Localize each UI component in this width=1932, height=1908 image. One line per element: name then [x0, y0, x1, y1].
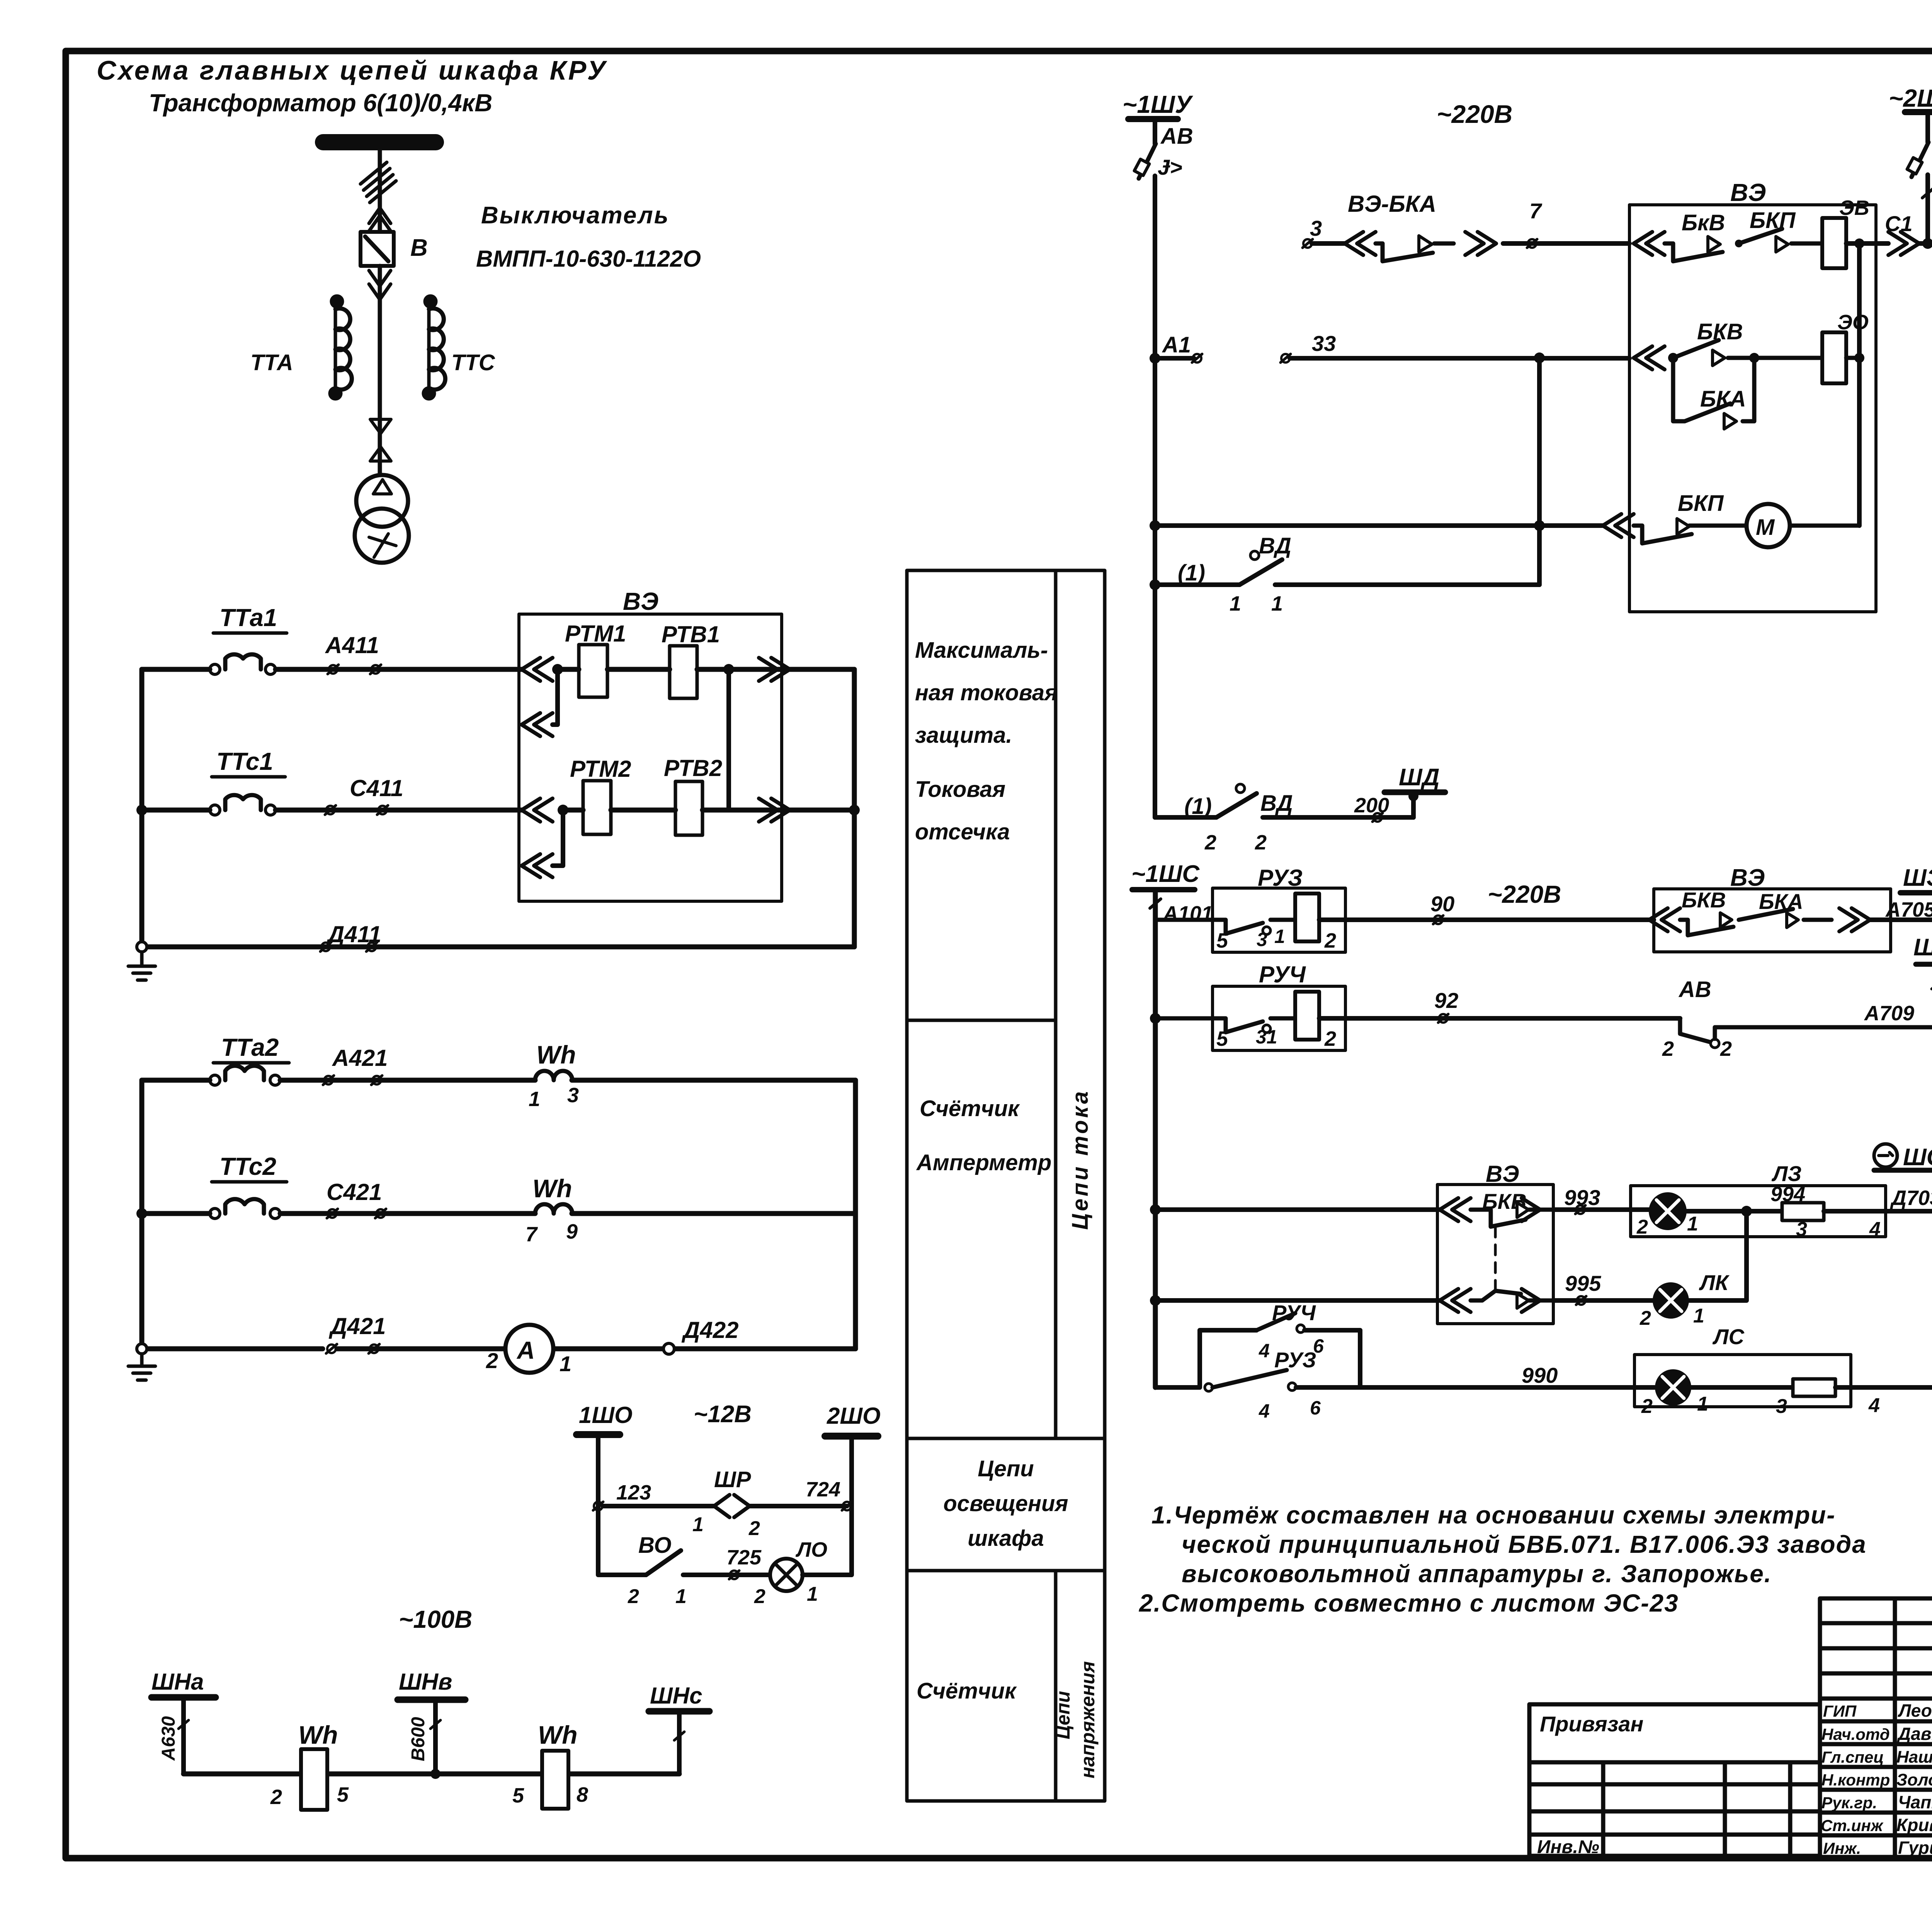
motor M: [1747, 504, 1790, 547]
svg-text:РУЗ: РУЗ: [1274, 1348, 1316, 1372]
phase mark A421 a: [323, 1076, 334, 1085]
title: Схема главных цепей шкафа КРУ: [97, 55, 607, 117]
chevron up marks: [369, 208, 391, 231]
svg-text:ШС: ШС: [1903, 1144, 1932, 1171]
svg-text:Чапны: Чапны: [1898, 1792, 1932, 1812]
busbar 2ShO: [825, 1433, 878, 1440]
svg-text:4: 4: [1259, 1400, 1270, 1422]
contact arrows EV row in: [1634, 232, 1665, 255]
wire row1 inside box: [558, 667, 854, 672]
node BKV row2: [1668, 353, 1678, 363]
svg-text:отсечка: отсечка: [915, 819, 1010, 844]
svg-text:2: 2: [1720, 1037, 1732, 1060]
svg-text:Д421: Д421: [328, 1313, 386, 1339]
right return vertical metering: [853, 1080, 858, 1349]
svg-text:А1: А1: [1162, 332, 1191, 357]
lamp LZ: [1651, 1194, 1685, 1228]
busbar ShNa: [151, 1694, 216, 1701]
title block: privyazan table: [1529, 1704, 1820, 1856]
svg-text:123: 123: [616, 1481, 651, 1504]
relay box VE (current): [519, 614, 782, 901]
svg-text:~220В: ~220В: [1437, 100, 1512, 128]
svg-text:М: М: [1756, 515, 1775, 540]
phase mark D421 b: [369, 1344, 379, 1353]
CT TTA coil: [330, 296, 352, 398]
node A1: [1150, 353, 1160, 364]
svg-text:ВЭ: ВЭ: [1730, 865, 1765, 891]
wire A421: [142, 1078, 855, 1083]
aux switch box VE/BKV (transfer): [1437, 1185, 1553, 1324]
relay box VE (signal): [1654, 889, 1891, 952]
svg-text:защита.: защита.: [915, 723, 1012, 748]
wire from busbar to breaker: [378, 150, 382, 232]
bus 2ShU drop: [1925, 112, 1930, 243]
contact arrows row1: [522, 658, 553, 681]
svg-text:ТТА: ТТА: [250, 350, 293, 375]
svg-text:Привязан: Привязан: [1540, 1712, 1643, 1736]
svg-text:Ст.инж: Ст.инж: [1821, 1816, 1884, 1835]
switch VD row1: [1155, 582, 1240, 587]
svg-text:6: 6: [1310, 1397, 1321, 1419]
transformer T windings: [356, 475, 408, 527]
svg-text:3: 3: [1776, 1395, 1787, 1418]
svg-text:2: 2: [1204, 831, 1216, 854]
phase mark C411 a: [325, 805, 336, 815]
svg-text:Кривцова: Кривцова: [1896, 1815, 1932, 1835]
node ground D421: [137, 1344, 147, 1354]
svg-text:33: 33: [1312, 331, 1336, 356]
svg-text:ГИП: ГИП: [1823, 1702, 1857, 1720]
left bus vertical (CT group 1): [139, 669, 145, 947]
phase mark 724: [842, 1502, 852, 1510]
svg-text:2: 2: [1324, 1027, 1336, 1050]
svg-text:~220В: ~220В: [1488, 880, 1561, 908]
svg-text:Счётчик: Счётчик: [920, 1096, 1020, 1121]
wire D411: [142, 945, 854, 950]
svg-text:1ШО: 1ШО: [579, 1402, 633, 1428]
svg-text:АВ: АВ: [1678, 977, 1711, 1002]
svg-text:РТВ1: РТВ1: [662, 621, 720, 647]
svg-text:Золотарева: Золотарева: [1896, 1770, 1932, 1789]
busbar 6-10kV: [323, 134, 436, 150]
CT TTa1 symbol: [210, 654, 276, 674]
chevron down marks: [369, 271, 391, 300]
svg-text:2: 2: [628, 1585, 639, 1608]
svg-text:Схема главных цепей шкафа: Схема главных цепей шкафа КРУ: [97, 55, 607, 85]
svg-text:~100В: ~100В: [399, 1605, 472, 1633]
svg-text:1: 1: [807, 1583, 818, 1605]
contact arrows EO row in: [1634, 346, 1665, 369]
svg-text:Цепи: Цепи: [978, 1456, 1034, 1481]
svg-text:ческой принципиальной БВБ.07: ческой принципиальной БВБ.071. В17.006.Э…: [1182, 1530, 1867, 1558]
svg-text:5: 5: [512, 1784, 524, 1807]
busbar ShNs: [649, 1708, 709, 1715]
svg-text:1: 1: [692, 1513, 704, 1536]
svg-text:1: 1: [560, 1351, 571, 1376]
wire row EV left: [1312, 241, 1629, 246]
svg-text:В600: В600: [408, 1717, 429, 1761]
wire 123: [603, 1504, 714, 1508]
phase mark C411 b: [377, 805, 388, 815]
svg-text:Инв.№: Инв.№: [1537, 1837, 1599, 1857]
node 994: [1741, 1206, 1752, 1217]
node ShNv: [430, 1769, 440, 1779]
svg-text:Давыдов: Давыдов: [1896, 1724, 1932, 1744]
phase mark 725: [729, 1571, 739, 1579]
svg-text:освещения: освещения: [943, 1491, 1068, 1516]
svg-text:С421: С421: [327, 1179, 382, 1205]
wire D421: [142, 1346, 855, 1351]
contact arrows row2: [522, 798, 553, 822]
wire LZ row left: [1155, 1207, 1440, 1212]
svg-text:А411: А411: [325, 632, 379, 658]
svg-text:ВМПП-10-630-1122О: ВМПП-10-630-1122О: [476, 246, 701, 272]
middle legend table: [907, 570, 1105, 1801]
minus lamp bus ShS: [1874, 1144, 1897, 1167]
svg-text:Wh: Wh: [298, 1721, 338, 1749]
svg-text:Д422: Д422: [681, 1317, 738, 1343]
svg-text:А705: А705: [1885, 898, 1932, 921]
phase mark 1ShS: [1150, 899, 1161, 908]
phase mark ShNa: [179, 1720, 189, 1729]
svg-text:2: 2: [1641, 1395, 1653, 1418]
svg-text:РТМ1: РТМ1: [565, 621, 626, 647]
svg-text:Леонов: Леонов: [1898, 1700, 1932, 1721]
relay box VE (control): [1629, 205, 1876, 612]
lamp LS assembly box: [1634, 1355, 1851, 1407]
svg-text:ЛО: ЛО: [795, 1538, 827, 1561]
svg-text:С411: С411: [350, 775, 403, 801]
svg-text:БКП: БКП: [1750, 208, 1796, 233]
svg-text:4: 4: [1868, 1394, 1880, 1417]
phase mark C421 b: [375, 1209, 386, 1218]
svg-text:А630: А630: [158, 1716, 179, 1761]
svg-text:Гурина: Гурина: [1898, 1838, 1932, 1858]
BKV transfer upper: [1471, 1210, 1526, 1227]
notes text: [1139, 1501, 1867, 1617]
node EO out: [1854, 353, 1864, 363]
arrows EV out / C1 wire: [1888, 232, 1919, 255]
wire row2 inside box: [563, 808, 854, 813]
svg-text:А421: А421: [332, 1045, 388, 1071]
wire C421: [142, 1211, 855, 1216]
CT TTa2 symbol: [210, 1066, 280, 1085]
svg-text:ШР: ШР: [714, 1467, 751, 1492]
wire BKP/M row: [1155, 523, 1604, 528]
node VD row1 at bus: [1150, 579, 1160, 590]
svg-text:724: 724: [806, 1478, 840, 1501]
right drop 2ShO: [803, 1506, 852, 1575]
svg-text:ВЭ: ВЭ: [1730, 179, 1766, 206]
shunt loop row2: [553, 810, 563, 866]
phase mark D411 b: [366, 942, 377, 951]
svg-text:1: 1: [1697, 1393, 1708, 1415]
contact arrows LZ in: [1440, 1198, 1471, 1221]
svg-text:1: 1: [529, 1088, 540, 1111]
bus 1ShS vertical: [1153, 890, 1158, 1387]
disconnect triangles: [370, 419, 391, 461]
svg-text:ШНс: ШНс: [650, 1683, 702, 1709]
lamp LS: [1657, 1371, 1689, 1404]
svg-text:3: 3: [567, 1084, 579, 1107]
svg-text:2: 2: [748, 1517, 760, 1540]
phase mark ShD: [1372, 813, 1383, 822]
svg-text:Нашельский: Нашельский: [1896, 1748, 1932, 1767]
svg-text:Цепи: Цепи: [1052, 1691, 1074, 1739]
svg-text:ТТс1: ТТс1: [216, 747, 273, 775]
svg-text:Цепи тока: Цепи тока: [1068, 1089, 1093, 1230]
node C411 loop: [558, 805, 568, 815]
phase mark ShNv: [430, 1720, 440, 1729]
svg-text:2.Смотреть совместно с лист: 2.Смотреть совместно с листом ЭС-23: [1139, 1589, 1679, 1617]
wire 724: [750, 1504, 847, 1508]
svg-text:1.Чертёж составлен на основ: 1.Чертёж составлен на основании схемы эл…: [1151, 1501, 1836, 1529]
svg-text:Токовая: Токовая: [915, 777, 1005, 802]
phase mark 2ShU: [1922, 189, 1932, 198]
svg-text:Д703: Д703: [1890, 1186, 1932, 1210]
svg-text:2: 2: [1639, 1307, 1651, 1329]
node D422: [663, 1343, 674, 1354]
wire A1 stub: [1155, 356, 1194, 361]
link vertical 33/VD: [1537, 358, 1542, 585]
svg-text:ЛС: ЛС: [1712, 1324, 1745, 1349]
svg-text:ШЗА: ШЗА: [1903, 865, 1932, 891]
svg-text:ТТС: ТТС: [451, 350, 495, 375]
svg-text:995: 995: [1565, 1271, 1601, 1295]
svg-text:БКВ: БКВ: [1682, 888, 1726, 912]
breaker B box: [361, 232, 394, 266]
svg-text:ШЗП: ШЗП: [1913, 934, 1932, 961]
svg-text:8: 8: [577, 1783, 588, 1806]
svg-text:~1ШУ: ~1ШУ: [1122, 90, 1194, 118]
busbar 1ShO: [577, 1431, 620, 1438]
svg-text:ВЭ: ВЭ: [1486, 1161, 1519, 1187]
ground symbol metering: [128, 1354, 155, 1380]
contact arrows M row in: [1603, 514, 1634, 537]
svg-text:1: 1: [1230, 592, 1241, 615]
breaker AV (1ShU): [1139, 144, 1156, 179]
left drop to VO: [598, 1506, 646, 1575]
drawout hatch marks: [361, 162, 396, 203]
arrows out (signal): [1839, 908, 1870, 931]
svg-text:ЛК: ЛК: [1699, 1270, 1730, 1295]
svg-text:ТТс2: ТТс2: [219, 1152, 276, 1180]
CT TTC coil: [424, 296, 445, 398]
svg-text:1: 1: [1271, 592, 1283, 615]
svg-text:~1ШС: ~1ШС: [1131, 861, 1200, 887]
node A411 loop: [552, 664, 563, 675]
wire LK to node994: [1687, 1211, 1747, 1300]
voltage wire: [184, 1772, 679, 1777]
phase mark C421 a: [327, 1209, 338, 1218]
phase mark D411 a: [320, 942, 331, 951]
node RUCh at bus: [1150, 1013, 1161, 1024]
svg-text:92: 92: [1434, 988, 1458, 1013]
svg-text:ВЭ-БКА: ВЭ-БКА: [1348, 191, 1436, 217]
svg-text:Ɉ>: Ɉ>: [1158, 155, 1182, 179]
svg-text:ЛЗ: ЛЗ: [1771, 1161, 1801, 1186]
wire breaker to transformer: [378, 266, 382, 476]
svg-text:Wh: Wh: [538, 1721, 578, 1749]
svg-text:Инж.: Инж.: [1823, 1839, 1861, 1857]
ground symbol CT1: [128, 952, 155, 980]
phase mark ShNs: [674, 1732, 684, 1740]
svg-text:БкВ: БкВ: [1682, 210, 1725, 235]
svg-text:ВД: ВД: [1260, 791, 1293, 816]
svg-text:ТТа2: ТТа2: [221, 1033, 279, 1061]
busbar ShNv: [398, 1697, 465, 1703]
node lamp row LZ at bus: [1150, 1204, 1161, 1215]
phase mark 90: [1433, 916, 1443, 924]
bus segment to VD row2: [1153, 585, 1157, 817]
busbar 1ShS: [1132, 887, 1195, 892]
svg-text:Гл.спец: Гл.спец: [1821, 1748, 1884, 1766]
node ground D411: [137, 942, 147, 952]
svg-text:ная токовая: ная токовая: [915, 680, 1058, 705]
svg-text:990: 990: [1522, 1363, 1558, 1387]
svg-text:Нач.отд: Нач.отд: [1821, 1725, 1890, 1743]
svg-text:~12В: ~12В: [694, 1401, 752, 1428]
svg-text:2: 2: [1255, 831, 1267, 854]
svg-text:ТТа1: ТТа1: [219, 604, 277, 631]
node TTc2 bus: [136, 1208, 147, 1219]
node C1: [1922, 238, 1932, 249]
svg-text:3: 3: [1257, 929, 1267, 950]
lamp LZ assembly box: [1631, 1186, 1886, 1237]
svg-text:ШНа: ШНа: [151, 1669, 204, 1695]
right vertical inside VE box: [1857, 243, 1862, 526]
svg-text:ВО: ВО: [638, 1533, 672, 1558]
svg-text:ВЭ: ВЭ: [623, 587, 658, 615]
svg-text:1: 1: [1274, 926, 1285, 947]
BKV transfer lower: [1471, 1291, 1521, 1300]
vertical link rows1-2: [726, 669, 731, 810]
svg-text:высоковольтной аппаратуры г.: высоковольтной аппаратуры г. Запорожье.: [1182, 1560, 1772, 1588]
svg-text:4: 4: [1869, 1218, 1881, 1241]
svg-text:2: 2: [754, 1585, 765, 1608]
svg-text:2: 2: [1662, 1037, 1674, 1060]
CT TTc2 symbol: [210, 1199, 280, 1219]
svg-text:200: 200: [1354, 794, 1389, 817]
busbar 1ShU: [1128, 116, 1178, 122]
phase mark 993: [1575, 1205, 1585, 1214]
svg-text:4: 4: [1259, 1340, 1270, 1362]
svg-text:ВД: ВД: [1259, 533, 1291, 558]
left bus vertical (metering group): [139, 1080, 145, 1349]
svg-text:Рук.гр.: Рук.гр.: [1821, 1794, 1877, 1812]
svg-text:ШД: ШД: [1399, 764, 1439, 791]
svg-text:Н.контр: Н.контр: [1821, 1771, 1890, 1789]
phase mark A421 b: [371, 1076, 382, 1085]
svg-text:2: 2: [270, 1785, 282, 1809]
phase mark A411 b: [370, 665, 381, 674]
svg-text:шкафа: шкафа: [968, 1526, 1044, 1551]
svg-text:1: 1: [1687, 1213, 1698, 1235]
svg-text:31: 31: [1256, 1026, 1277, 1048]
right return vertical CT1: [852, 669, 857, 947]
svg-text:2: 2: [1324, 929, 1336, 952]
svg-text:2ШО: 2ШО: [827, 1403, 881, 1429]
svg-text:С1: С1: [1885, 211, 1913, 236]
phase mark 123: [593, 1502, 603, 1510]
ammeter A: [505, 1325, 553, 1373]
dashed link: [1494, 1227, 1497, 1291]
contact VE-BKA (drawout+aux): [1345, 232, 1376, 255]
node row2 right: [849, 805, 860, 815]
svg-text:Счётчик: Счётчик: [917, 1678, 1017, 1704]
svg-text:БКП: БКП: [1678, 491, 1724, 516]
svg-text:725: 725: [726, 1546, 762, 1569]
svg-text:2: 2: [1636, 1216, 1648, 1238]
arrows out row1: [759, 658, 790, 681]
svg-text:Д411: Д411: [326, 921, 381, 947]
svg-text:РТМ2: РТМ2: [570, 756, 631, 782]
arrows out row2: [759, 798, 790, 822]
node EV out: [1846, 241, 1876, 246]
svg-text:Максималь-: Максималь-: [915, 638, 1048, 663]
node TTc1 bus: [136, 805, 147, 815]
breaker AV (2ShU): [1912, 142, 1929, 177]
svg-text:7: 7: [526, 1223, 538, 1246]
phase mark A411 a: [328, 665, 338, 674]
svg-text:напряжения: напряжения: [1077, 1661, 1099, 1778]
svg-text:РУЧ: РУЧ: [1259, 962, 1306, 987]
CT TTc1 symbol: [210, 795, 276, 815]
bus 1ShU vertical: [1153, 119, 1157, 585]
svg-text:9: 9: [566, 1220, 578, 1243]
svg-text:3: 3: [1310, 216, 1322, 240]
phase mark 995: [1576, 1296, 1586, 1305]
wire LK row: [1155, 1298, 1440, 1303]
svg-text:Амперметр: Амперметр: [916, 1150, 1051, 1175]
node lamp row LK at bus: [1150, 1295, 1161, 1306]
contact arrows in (signal): [1649, 908, 1680, 931]
shunt loop row1: [553, 669, 558, 725]
svg-text:1: 1: [1693, 1305, 1704, 1327]
svg-text:~2ШУ: ~2ШУ: [1889, 84, 1932, 112]
svg-text:90: 90: [1430, 892, 1454, 916]
switch VD row2: [1155, 815, 1216, 820]
svg-text:ШНв: ШНв: [399, 1669, 452, 1695]
svg-text:2: 2: [486, 1348, 498, 1373]
title block: signature table: [1820, 1598, 1932, 1859]
svg-text:Выключатель: Выключатель: [481, 202, 670, 229]
node after RTV1: [723, 664, 734, 675]
svg-text:7: 7: [1529, 199, 1543, 223]
wire A411: [142, 667, 522, 672]
svg-text:АВ: АВ: [1160, 124, 1193, 149]
svg-text:В: В: [410, 235, 428, 261]
svg-text:(1): (1): [1178, 560, 1205, 586]
svg-text:Wh: Wh: [532, 1174, 572, 1203]
svg-text:Wh: Wh: [536, 1040, 576, 1069]
busbar 2ShU: [1905, 109, 1932, 115]
svg-text:А709: А709: [1864, 1002, 1914, 1025]
node BKP row at bus: [1150, 520, 1160, 531]
svg-text:РТВ2: РТВ2: [664, 755, 722, 781]
svg-text:1: 1: [675, 1585, 687, 1608]
svg-text:А: А: [516, 1336, 535, 1364]
phase mark D421 a: [326, 1344, 337, 1353]
wire C411: [142, 808, 522, 813]
svg-text:Трансформатор 6(10)/0,4кВ: Трансформатор 6(10)/0,4кВ: [149, 89, 492, 117]
phase mark 92: [1438, 1014, 1448, 1023]
svg-text:5: 5: [337, 1783, 349, 1806]
wire to EO coil: [1754, 356, 1822, 360]
